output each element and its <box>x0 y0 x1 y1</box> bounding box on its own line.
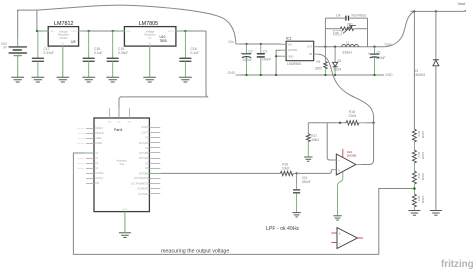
wire FB S-curve down to feedback node <box>318 54 374 123</box>
svg-text:D0/RX: D0/RX <box>141 127 148 129</box>
svg-text:D5 PWM: D5 PWM <box>139 153 148 155</box>
SECTION: annotations <box>161 226 474 269</box>
svg-text:0.33uF: 0.33uF <box>118 51 128 55</box>
wire riser right from C4 to OUT row <box>367 18 369 47</box>
wire R12-tap <box>413 184 415 194</box>
svg-text:GND: GND <box>122 209 127 211</box>
svg-text:0.1uF: 0.1uF <box>94 51 102 55</box>
IC U IC1 LM2596S buck regulator <box>281 37 318 66</box>
op-amp U12 LM358 <box>331 149 361 215</box>
svg-text:ON/OFF: ON/OFF <box>288 49 298 52</box>
pins right D0-D13 <box>149 128 160 194</box>
diode D1 SS34 <box>333 47 342 75</box>
node C3 junction <box>260 43 262 45</box>
wire 5V feed down to MCU <box>119 31 208 108</box>
wire R11 to ground <box>413 207 415 210</box>
pin U12 V+ unrouted <box>342 149 344 158</box>
pin left A0 (connected) <box>84 152 94 154</box>
svg-text:LPF - ok 49Hz: LPF - ok 49Hz <box>266 226 300 232</box>
wire riser left to VR1/C4 <box>324 18 326 47</box>
svg-text:+: + <box>339 232 341 236</box>
svg-text:fritzing: fritzing <box>441 259 474 269</box>
svg-text:D10 PWM/SS: D10 PWM/SS <box>134 178 149 180</box>
ground battery <box>12 77 24 82</box>
capacitor C18 0.1uF <box>83 31 102 77</box>
node R1 gnd junction <box>324 74 326 76</box>
node VIN12 junction <box>36 30 38 32</box>
svg-text:12VDC: 12VDC <box>59 36 67 40</box>
node divider tap junction <box>413 187 416 190</box>
SECTION: mcu <box>73 108 413 254</box>
svg-text:330uH: 330uH <box>342 51 352 55</box>
svg-text:A4/SDA: A4/SDA <box>95 172 104 175</box>
wire 5V rail <box>181 30 206 32</box>
svg-text:R1: R1 <box>317 60 321 64</box>
node rail-divider junction <box>413 10 415 12</box>
capacitor C3 100nF <box>257 44 272 75</box>
svg-text:D12/MISO: D12/MISO <box>137 189 148 191</box>
svg-text:LM2596S: LM2596S <box>287 62 302 66</box>
node C2 gnd junction <box>245 74 247 76</box>
svg-text:unconn: unconn <box>77 158 85 160</box>
wire D9 to R16 <box>160 172 280 174</box>
svg-text:U9: U9 <box>71 40 75 44</box>
svg-text:FB: FB <box>309 53 313 56</box>
node rail-D3 junction <box>435 10 437 12</box>
pins left group1 <box>86 129 94 144</box>
wire battery plus top <box>18 10 37 12</box>
capacitor C11 330nF <box>293 173 311 212</box>
node C1 gnd junction <box>373 74 375 76</box>
wire U10 GND pin to ground <box>149 46 151 77</box>
svg-text:unconn: unconn <box>77 163 85 165</box>
ground divider <box>408 211 420 216</box>
resistor R14 10k <box>412 129 425 142</box>
svg-text:unconn: unconn <box>77 133 85 135</box>
capacitor C17 0.33uF <box>32 31 53 77</box>
svg-text:1N4004: 1N4004 <box>414 73 425 77</box>
svg-text:3300: 3300 <box>315 67 322 71</box>
svg-text:10kΩ: 10kΩ <box>421 173 425 181</box>
svg-text:C1: C1 <box>377 50 381 54</box>
svg-text:D13/SCK: D13/SCK <box>139 194 149 196</box>
SECTION: right column <box>408 1 466 215</box>
svg-text:7805: 7805 <box>160 39 167 43</box>
capacitor C4 Not Fitted <box>325 13 367 20</box>
svg-text:L1: L1 <box>346 41 350 45</box>
svg-text:R12: R12 <box>417 173 421 179</box>
node C1 junction <box>373 46 375 48</box>
wire 12V rail <box>84 30 125 32</box>
resistor R17 10k <box>306 123 319 157</box>
svg-text:unconn: unconn <box>77 128 85 130</box>
svg-text:VIN: VIN <box>128 122 132 124</box>
pin IC1.2 OUT <box>314 46 318 48</box>
resistor R12 10k <box>412 171 425 184</box>
ground C16 <box>179 77 191 82</box>
wire feedback row <box>308 122 346 124</box>
pin U12 output <box>356 164 362 166</box>
svg-text:0.1uF: 0.1uF <box>191 51 199 55</box>
svg-text:Vout: Vout <box>458 1 467 6</box>
svg-text:Din: Din <box>229 40 234 44</box>
svg-text:IOREF: IOREF <box>95 143 103 145</box>
pin top 3V3 <box>109 108 111 118</box>
pin top 5V (connected) <box>118 108 120 118</box>
pins left group2 <box>86 159 94 184</box>
node C16 junction <box>184 30 186 32</box>
wire riser to 12V input row <box>37 10 48 31</box>
svg-text:D6 PWM: D6 PWM <box>139 158 148 160</box>
op-amp U12B unused half <box>331 228 363 249</box>
wire output to feedback riser <box>362 123 374 165</box>
SECTION: buck converter <box>228 11 415 122</box>
pin top VIN <box>129 108 131 118</box>
svg-text:IC1: IC1 <box>286 37 292 41</box>
svg-text:C3: C3 <box>263 49 267 53</box>
svg-text:−: − <box>338 159 340 163</box>
svg-text:RESET: RESET <box>95 128 103 130</box>
svg-text:R13: R13 <box>417 152 421 158</box>
resistor R11 10k <box>412 194 425 207</box>
wire OUT+ S-curve up to Vout rail <box>385 11 415 46</box>
svg-text:VOUT: VOUT <box>71 31 78 33</box>
ground U12 V- <box>333 216 341 220</box>
svg-text:10k: 10k <box>334 31 339 35</box>
svg-text:measuring the output voltage: measuring the output voltage <box>161 249 229 255</box>
svg-text:220uF: 220uF <box>376 56 385 60</box>
wire D3 branch top <box>435 11 437 59</box>
pin U12 V- to ground <box>338 172 343 216</box>
node feedback junction <box>339 122 341 124</box>
svg-text:unconn: unconn <box>77 143 85 145</box>
node D1 top junction <box>334 46 336 48</box>
ground U9 <box>57 77 69 82</box>
svg-text:R14: R14 <box>417 131 421 137</box>
svg-text:0.33uF: 0.33uF <box>44 51 54 55</box>
ground C15 <box>107 77 119 82</box>
svg-text:RESET2: RESET2 <box>95 133 105 135</box>
ground C17 <box>32 77 44 82</box>
resistor R1 3300 <box>315 47 327 75</box>
svg-text:D1: D1 <box>338 59 342 63</box>
svg-text:10kΩ: 10kΩ <box>421 152 425 160</box>
svg-text:+: + <box>368 52 370 56</box>
svg-text:100nF: 100nF <box>262 58 271 62</box>
svg-text:22kΩ: 22kΩ <box>349 114 357 118</box>
capacitor C2 220uF electrolytic <box>241 44 253 75</box>
SECTION: power supply top-left <box>1 5 236 108</box>
svg-text:D11 PWM/MOSI: D11 PWM/MOSI <box>131 183 148 185</box>
battery VH2 9V <box>1 10 27 56</box>
node D1 gnd junction <box>334 74 336 76</box>
wire R14-R13 <box>413 142 415 150</box>
svg-text:10kΩ: 10kΩ <box>421 196 425 204</box>
wire R16 to node <box>293 172 296 174</box>
svg-text:220uF: 220uF <box>243 58 252 62</box>
node tie junction <box>275 55 277 57</box>
wire OUT row <box>318 46 385 48</box>
wire R13-R12 <box>413 163 415 171</box>
node R18 output junction <box>372 122 374 124</box>
node C3 gnd junction <box>260 74 262 76</box>
voltage regulator U9 LM7812 <box>43 21 84 46</box>
pin U12B plus input unrouted <box>331 232 337 234</box>
svg-text:GND: GND <box>288 55 294 58</box>
node C2 junction <box>245 43 247 45</box>
svg-text:Yun: Yun <box>119 162 125 166</box>
node C15 junction <box>112 30 114 32</box>
wire top wavy battery to buck Din <box>37 5 236 43</box>
pin U12 minus input <box>332 159 336 161</box>
svg-text:R11: R11 <box>417 196 421 202</box>
capacitor C1 220uF electrolytic <box>368 47 385 75</box>
pin U12B minus input unrouted <box>331 242 337 244</box>
svg-text:VR1: VR1 <box>347 23 353 27</box>
resistor R16 10k <box>280 163 293 176</box>
svg-text:GND: GND <box>385 73 393 77</box>
wire battery minus to ground <box>17 56 19 77</box>
voltage regulator U10 LM7805 <box>119 21 181 46</box>
ground R17 <box>304 157 312 161</box>
pin IC1.5 ON/OFF <box>281 49 286 51</box>
potentiometer VR1 10k <box>325 23 367 35</box>
node C18 junction <box>88 30 90 32</box>
svg-text:330nF: 330nF <box>302 180 311 184</box>
pin IC1.4 FB <box>314 53 318 55</box>
ground D3 <box>430 211 442 216</box>
node C11 junction <box>295 172 297 174</box>
ground C18 <box>83 77 95 82</box>
svg-text:VOUT: VOUT <box>168 31 175 33</box>
resistor R18 22k <box>346 110 359 125</box>
svg-text:VIN: VIN <box>95 183 99 185</box>
pin U12B output unrouted <box>357 237 363 239</box>
svg-text:Not Fitted: Not Fitted <box>352 13 366 17</box>
svg-text:unconn: unconn <box>77 138 85 140</box>
wire divider top <box>413 11 415 129</box>
inductor L1 330uH <box>342 41 359 55</box>
wire A0 sense: left, down, bottom run <box>73 153 413 254</box>
pin bottom GND <box>124 212 126 232</box>
svg-text:D1/TX: D1/TX <box>142 132 149 134</box>
wire Din input row <box>236 43 281 45</box>
pin right D9 (connected) <box>149 172 160 174</box>
capacitor C15 0.33uF <box>107 31 128 77</box>
svg-text:C4: C4 <box>336 13 340 17</box>
svg-text:Part1: Part1 <box>114 128 123 132</box>
svg-text:A5/SCL: A5/SCL <box>95 177 104 180</box>
svg-text:10kΩ: 10kΩ <box>282 167 290 171</box>
svg-text:10kΩ: 10kΩ <box>421 131 425 139</box>
svg-text:D9 PWM: D9 PWM <box>139 173 148 175</box>
svg-text:+: + <box>338 169 340 173</box>
SECTION: opamp <box>280 110 374 249</box>
svg-text:SS34: SS34 <box>333 67 341 71</box>
svg-text:AREF: AREF <box>95 137 102 140</box>
svg-text:LM358: LM358 <box>347 153 357 157</box>
wire ON/OFF and GND pins tied to rail <box>276 50 281 75</box>
svg-text:VIN: VIN <box>126 31 130 33</box>
pin IC1.1 VIN <box>281 43 286 45</box>
svg-text:GND: GND <box>228 71 236 75</box>
svg-text:VIN: VIN <box>288 43 292 46</box>
wire R18 right to output riser <box>359 122 367 124</box>
diode D3 1N4004 <box>414 60 439 210</box>
microcontroller Part1 Arduino Yun <box>94 118 149 212</box>
svg-text:C2: C2 <box>248 49 252 53</box>
wire inverting input drop <box>327 123 336 160</box>
wire U9 GND pin to ground <box>62 46 64 77</box>
node R1 top junction <box>324 46 326 48</box>
wire Vout rail <box>411 10 466 12</box>
svg-text:OUT: OUT <box>307 46 313 49</box>
capacitor C16 0.1uF <box>180 31 199 77</box>
wire node to opamp plus input <box>297 170 332 174</box>
pin IC1.3 GND <box>281 55 286 57</box>
svg-text:unconn: unconn <box>77 168 85 170</box>
wire buck ground rail <box>236 74 384 76</box>
svg-text:D3 PWM: D3 PWM <box>139 143 148 145</box>
svg-text:10kΩ: 10kΩ <box>311 138 319 142</box>
pin U12 plus input <box>331 169 336 171</box>
ground C11 <box>292 213 300 217</box>
svg-text:VIN: VIN <box>50 31 54 33</box>
resistor R13 10k <box>412 150 425 163</box>
ground U10 <box>144 77 156 82</box>
ground MCU <box>119 233 131 238</box>
svg-text:−: − <box>339 242 341 246</box>
